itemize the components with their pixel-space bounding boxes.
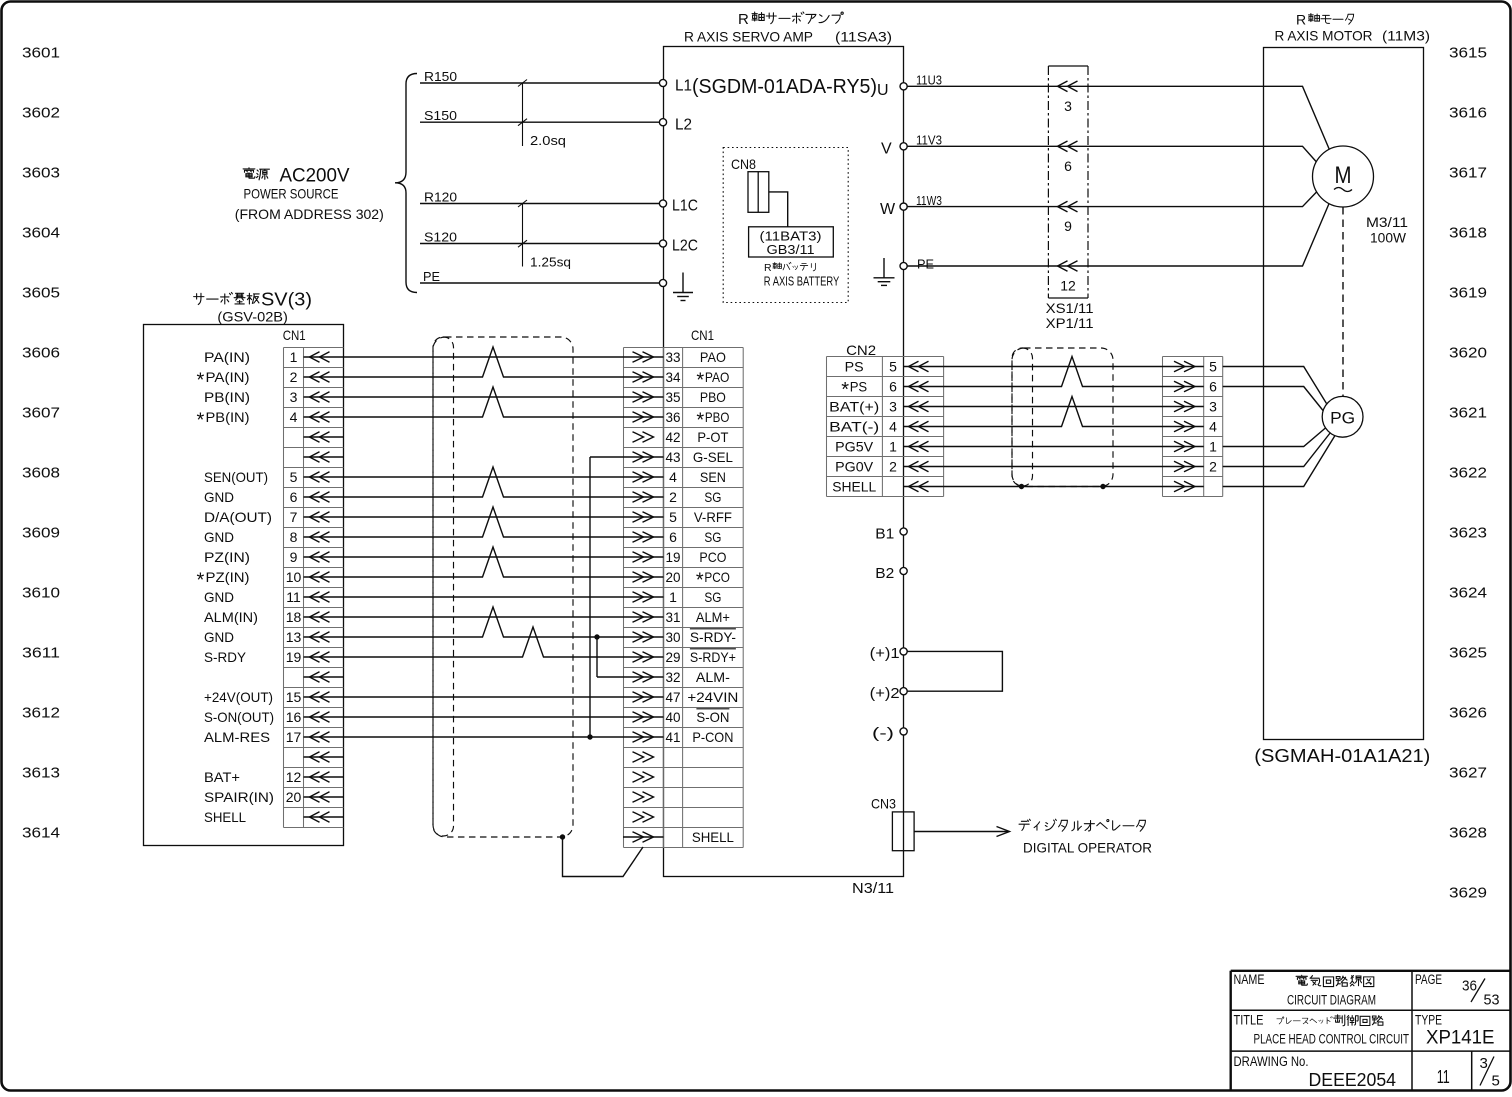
- svg-text:3: 3: [889, 399, 897, 415]
- wire row y657 left-to-amp: [343, 627, 623, 657]
- wire CN2 row 5: [944, 446, 1162, 448]
- svg-text:SEN: SEN: [700, 469, 726, 485]
- svg-text:SHELL: SHELL: [204, 809, 246, 825]
- left CN1 row PB(IN) pin 3: [204, 389, 343, 405]
- motor label M3/11 100W: [1366, 215, 1408, 246]
- svg-text:3605: 3605: [22, 284, 60, 301]
- wire row y737 left-to-amp: [343, 736, 623, 738]
- encoder table row pin 2: [1162, 459, 1217, 475]
- CN2 row PG5V pin 1: [835, 439, 943, 455]
- connector CN8: [731, 156, 769, 212]
- svg-text:3614: 3614: [22, 824, 60, 841]
- svg-text:6: 6: [889, 379, 897, 395]
- wire row y397 left-to-amp: [343, 396, 623, 398]
- svg-text:PG5V: PG5V: [835, 439, 874, 455]
- amp CN1 row pin - blank: [633, 792, 654, 803]
- terminal PE input: [659, 279, 666, 286]
- svg-text:(11M3): (11M3): [1382, 28, 1430, 44]
- left CN1 row blank pin -: [304, 752, 344, 763]
- svg-text:42: 42: [666, 429, 681, 445]
- left CN1 row blank pin -: [304, 432, 344, 443]
- encoder table row pin 6: [1162, 379, 1217, 395]
- brace grouping power wires: [395, 74, 417, 293]
- svg-text:CN2: CN2: [846, 342, 876, 358]
- shielded cable boundary (left pair cable): [433, 337, 573, 837]
- motor encoder connector pin table: [1163, 357, 1223, 497]
- cable shield junction node: [560, 834, 565, 839]
- amp CN1 row pin - blank: [633, 772, 654, 783]
- svg-text:DRAWING No.: DRAWING No.: [1234, 1054, 1309, 1069]
- svg-text:4: 4: [889, 419, 897, 435]
- title block TITLE cell: [1234, 1013, 1410, 1047]
- svg-text:PA(IN): PA(IN): [206, 369, 250, 385]
- svg-text:XP1/11: XP1/11: [1046, 316, 1094, 331]
- svg-text:3625: 3625: [1449, 644, 1487, 661]
- svg-text:S-RDY+: S-RDY+: [690, 649, 736, 665]
- amp CN1 row pin 36 *PBO: [623, 409, 729, 432]
- svg-text:100W: 100W: [1370, 231, 1406, 246]
- amp CN1 row pin 1 SG: [623, 589, 721, 605]
- motor subtitle R AXIS MOTOR (11M3): [1275, 28, 1431, 44]
- svg-text:R150: R150: [424, 69, 457, 84]
- svg-text:R AXIS BATTERY: R AXIS BATTERY: [764, 275, 840, 289]
- connector XS1/11 XP1/11: [1046, 66, 1094, 331]
- svg-text:3617: 3617: [1449, 164, 1487, 181]
- connector CN3: [871, 796, 914, 851]
- svg-text:POWER SOURCE: POWER SOURCE: [244, 186, 339, 202]
- svg-text:6: 6: [669, 529, 677, 545]
- svg-text:B1: B1: [875, 527, 894, 543]
- svg-text:1: 1: [290, 349, 298, 365]
- svg-text:9: 9: [290, 549, 298, 565]
- wire 11V3: [907, 133, 1263, 148]
- svg-text:4: 4: [290, 409, 298, 425]
- svg-text:S-RDY: S-RDY: [204, 649, 247, 665]
- svg-text:(-): (-): [872, 726, 894, 742]
- wire CN2 row 2: [944, 357, 1162, 387]
- amp CN1 row pin 5 V-RFF: [623, 509, 732, 525]
- svg-text:M3/11: M3/11: [1366, 215, 1408, 230]
- svg-text:ALM-: ALM-: [696, 669, 730, 685]
- left CN1 row BAT+ pin 12: [204, 769, 343, 785]
- svg-text:11U3: 11U3: [916, 73, 942, 88]
- svg-text:PB(IN): PB(IN): [206, 409, 250, 425]
- left CN1 row GND pin 6: [204, 489, 343, 505]
- svg-text:N3/11: N3/11: [852, 881, 894, 897]
- terminal PE output: [900, 256, 934, 271]
- svg-text:32: 32: [666, 669, 681, 685]
- servo amp subtitle R AXIS SERVO AMP (11SA3): [684, 29, 892, 45]
- left CN1 row GND pin 8: [204, 529, 343, 545]
- svg-text:GB3/11: GB3/11: [767, 243, 815, 257]
- encoder wires to PG: [1223, 367, 1335, 487]
- svg-text:V-RFF: V-RFF: [694, 509, 732, 525]
- svg-text:PAGE: PAGE: [1415, 972, 1442, 987]
- svg-text:10: 10: [286, 569, 302, 585]
- svg-text:5: 5: [1209, 359, 1217, 375]
- svg-text:P-CON: P-CON: [692, 729, 733, 745]
- shielded cable boundary (encoder cable): [1012, 348, 1113, 487]
- amp CN1 row pin 2 SG: [623, 489, 721, 505]
- wire PE to motor: [907, 265, 1263, 267]
- wire gauge 2.0sq for R150/S150: [518, 80, 566, 149]
- svg-text:8: 8: [290, 529, 298, 545]
- svg-text:19: 19: [666, 549, 681, 565]
- amp CN1 row pin 42 P-OT: [633, 429, 729, 445]
- left CN1 pin table grid: [284, 348, 344, 828]
- wire row y597 left-to-amp: [343, 596, 623, 598]
- left CN1 row blank pin -: [304, 452, 344, 463]
- svg-text:3609: 3609: [22, 524, 60, 541]
- encoder cable shield junction nodes: [1019, 484, 1024, 489]
- servo board SV(3) title サーボ基板SV(3): [194, 290, 312, 310]
- svg-text:AC200V: AC200V: [280, 166, 350, 187]
- wire row y537 left-to-amp: [343, 507, 623, 537]
- left CN1 row *PA(IN) pin 2: [197, 369, 344, 392]
- svg-text:CN8: CN8: [731, 156, 756, 172]
- right margin line numbers 3615-3629: [1449, 44, 1487, 901]
- svg-text:S-ON(OUT): S-ON(OUT): [204, 709, 274, 725]
- svg-text:3612: 3612: [22, 704, 60, 721]
- svg-text:17: 17: [286, 729, 302, 745]
- wire row y557 left-to-amp: [343, 556, 623, 558]
- svg-text:20: 20: [286, 789, 302, 805]
- svg-text:PAO: PAO: [705, 369, 730, 385]
- motor internal wires U V W PE: [1264, 86, 1331, 151]
- dashed shaft link from motor to encoder: [1342, 207, 1344, 396]
- svg-text:3629: 3629: [1449, 884, 1487, 901]
- svg-text:16: 16: [286, 709, 302, 725]
- R axis motor 11M3 outline box: [1264, 48, 1424, 740]
- CN2 pin table grid: [827, 357, 944, 497]
- svg-text:3627: 3627: [1449, 764, 1487, 781]
- left CN1 row SHELL pin -: [204, 809, 343, 825]
- svg-text:3620: 3620: [1449, 344, 1487, 361]
- svg-text:S120: S120: [424, 230, 457, 245]
- svg-text:PCO: PCO: [704, 569, 730, 585]
- svg-text:V: V: [881, 141, 892, 158]
- svg-text:PBO: PBO: [700, 389, 726, 405]
- svg-text:*: *: [197, 410, 205, 432]
- svg-text:47: 47: [666, 689, 681, 705]
- svg-text:(SGDM-01ADA-RY5): (SGDM-01ADA-RY5): [692, 76, 877, 98]
- terminal (+)1: [870, 646, 908, 662]
- svg-text:2: 2: [1209, 459, 1217, 475]
- terminal U: [877, 82, 907, 99]
- svg-text:R: R: [738, 11, 749, 28]
- svg-text:SPAIR(IN): SPAIR(IN): [204, 789, 274, 805]
- encoder table row pin 4: [1162, 419, 1217, 435]
- svg-text:B2: B2: [875, 566, 894, 582]
- svg-text:PS: PS: [850, 379, 868, 395]
- svg-text:3616: 3616: [1449, 104, 1487, 121]
- svg-text:11: 11: [1437, 1067, 1450, 1087]
- amp CN1 row pin 4 SEN: [623, 469, 726, 485]
- svg-text:43: 43: [666, 449, 681, 465]
- svg-text:1: 1: [1209, 439, 1217, 455]
- svg-text:L2C: L2C: [672, 238, 698, 255]
- svg-text:GND: GND: [204, 489, 234, 505]
- terminal L2C: [659, 238, 698, 255]
- svg-text:PG: PG: [1330, 409, 1355, 428]
- wire CN8 to battery: [769, 192, 788, 227]
- left CN1 row SPAIR(IN) pin 20: [204, 789, 343, 805]
- svg-text:18: 18: [286, 609, 302, 625]
- svg-text:3602: 3602: [22, 104, 60, 121]
- svg-text:R: R: [1296, 12, 1306, 28]
- svg-text:3621: 3621: [1449, 404, 1487, 421]
- svg-text:R120: R120: [424, 190, 457, 205]
- CN2 row *PS pin 6: [841, 379, 943, 402]
- svg-text:31: 31: [666, 609, 681, 625]
- svg-text:30: 30: [666, 629, 681, 645]
- svg-text:(+)2: (+)2: [870, 686, 900, 702]
- amp CN1 row pin 34 *PAO: [623, 369, 729, 392]
- svg-text:2: 2: [889, 459, 897, 475]
- svg-text:3608: 3608: [22, 464, 60, 481]
- svg-text:PZ(IN): PZ(IN): [206, 569, 250, 585]
- battery label R軸バッテリ: [764, 262, 815, 274]
- svg-text:P-OT: P-OT: [697, 429, 728, 445]
- svg-text:SG: SG: [704, 529, 721, 545]
- servo board outline box: [144, 325, 344, 846]
- left CN1 row PZ(IN) pin 9: [204, 549, 343, 565]
- svg-text:PB(IN): PB(IN): [204, 389, 250, 405]
- svg-text:W: W: [880, 201, 896, 218]
- svg-text:PCO: PCO: [699, 549, 726, 565]
- encoder table row pin 3: [1162, 399, 1217, 415]
- svg-text:3611: 3611: [22, 644, 60, 661]
- ground symbol at PE output: [874, 258, 895, 285]
- svg-text:(+)1: (+)1: [870, 646, 900, 662]
- wire R120: [420, 190, 663, 205]
- title block DRAWING No. cell: [1234, 1054, 1500, 1090]
- svg-text:SHELL: SHELL: [692, 829, 734, 845]
- servo amp title R軸サーボアンプ: [738, 11, 843, 28]
- svg-text:D/A(OUT): D/A(OUT): [204, 509, 272, 525]
- svg-text:3628: 3628: [1449, 824, 1487, 841]
- svg-text:9: 9: [1064, 218, 1072, 234]
- battery section dotted enclosure: [723, 148, 848, 303]
- wire 11U3: [907, 73, 1263, 88]
- terminal V: [881, 141, 907, 158]
- svg-text:+24V(OUT): +24V(OUT): [204, 689, 273, 705]
- wire ALM- branch from GND13: [597, 676, 623, 678]
- svg-text:ALM+: ALM+: [696, 609, 730, 625]
- svg-text:4: 4: [1209, 419, 1217, 435]
- motor title R軸モータ: [1296, 12, 1354, 28]
- wire row y517 left-to-amp: [343, 516, 623, 518]
- svg-text:3626: 3626: [1449, 704, 1487, 721]
- svg-text:1: 1: [889, 439, 897, 455]
- terminal (-): [872, 726, 907, 742]
- amp CN1 row pin 43 G-SEL: [623, 449, 733, 465]
- wire row y577 left-to-amp: [343, 547, 623, 577]
- left CN1 row ALM(IN) pin 18: [204, 609, 343, 625]
- svg-text:3: 3: [1064, 98, 1072, 114]
- wire CN2 row 4: [944, 397, 1162, 427]
- CN2 row BAT(-) pin 4: [829, 419, 943, 435]
- svg-text:(FROM ADDRESS 302): (FROM ADDRESS 302): [235, 206, 384, 222]
- svg-text:U: U: [877, 82, 889, 99]
- svg-text:PE: PE: [423, 269, 440, 284]
- svg-text:3: 3: [1480, 1055, 1488, 1072]
- svg-text:ALM-RES: ALM-RES: [204, 729, 270, 745]
- wire row y497 left-to-amp: [343, 467, 623, 497]
- CN2 row PS pin 5: [845, 359, 944, 375]
- svg-text:TYPE: TYPE: [1415, 1013, 1442, 1028]
- svg-text:PG0V: PG0V: [835, 459, 874, 475]
- svg-text:(11BAT3): (11BAT3): [760, 229, 822, 243]
- amp CN1 row pin 31 ALM+: [623, 609, 730, 625]
- amp CN1 row pin - blank: [633, 812, 654, 823]
- power source label 電源 AC200V: [235, 166, 384, 222]
- svg-text:S-ON: S-ON: [696, 709, 729, 725]
- wire row y477 left-to-amp: [343, 476, 623, 478]
- svg-text:SG: SG: [704, 589, 721, 605]
- svg-text:3613: 3613: [22, 764, 60, 781]
- svg-text:11: 11: [286, 589, 301, 605]
- svg-text:SG: SG: [704, 489, 721, 505]
- svg-text:L1C: L1C: [672, 198, 698, 215]
- svg-text:R AXIS MOTOR: R AXIS MOTOR: [1275, 28, 1373, 44]
- wire S150: [420, 108, 663, 123]
- svg-text:3624: 3624: [1449, 584, 1487, 601]
- left CN1 row S-ON(OUT) pin 16: [204, 709, 343, 725]
- svg-text:PZ(IN): PZ(IN): [204, 549, 250, 565]
- wire CN2 row 1: [944, 366, 1162, 368]
- svg-text:5: 5: [669, 509, 677, 525]
- svg-text:12: 12: [1060, 278, 1076, 294]
- servo amplifier 11SA3 outline box: [664, 47, 904, 877]
- svg-text:41: 41: [666, 729, 681, 745]
- svg-text:2: 2: [669, 489, 677, 505]
- amp CN1 row pin 35 PBO: [623, 389, 726, 405]
- terminal B2: [875, 566, 907, 582]
- svg-text:3615: 3615: [1449, 44, 1487, 61]
- svg-text:DEEE2054: DEEE2054: [1309, 1070, 1397, 1090]
- svg-text:3618: 3618: [1449, 224, 1487, 241]
- svg-text:35: 35: [666, 389, 681, 405]
- svg-text:3622: 3622: [1449, 464, 1487, 481]
- title block: [1231, 971, 1510, 1091]
- wire row y697 left-to-amp: [343, 696, 623, 698]
- wire gauge 1.25sq for R120/S120: [518, 200, 571, 270]
- wire row y377 left-to-amp: [343, 347, 623, 377]
- svg-text:(GSV-02B): (GSV-02B): [217, 309, 288, 325]
- wire 11W3: [907, 193, 1263, 208]
- svg-text:(11SA3): (11SA3): [835, 29, 892, 45]
- svg-text:CIRCUIT DIAGRAM: CIRCUIT DIAGRAM: [1287, 993, 1376, 1008]
- svg-text:XS1/11: XS1/11: [1046, 301, 1094, 316]
- svg-text:NAME: NAME: [1234, 972, 1265, 987]
- shield drain wire to amp CN1 SHELL: [563, 837, 644, 877]
- digital operator label ディジタルオペレータ: [1019, 819, 1030, 830]
- svg-text:15: 15: [286, 689, 302, 705]
- left CN1 row +24V(OUT) pin 15: [204, 689, 343, 705]
- left CN1 row S-RDY pin 19: [204, 649, 343, 665]
- wire CN2 row 6: [944, 466, 1162, 468]
- svg-text:2.0sq: 2.0sq: [530, 133, 566, 148]
- svg-text:11W3: 11W3: [916, 193, 942, 208]
- svg-text:PBO: PBO: [705, 409, 730, 425]
- svg-text:33: 33: [666, 349, 681, 365]
- svg-text:6: 6: [1209, 379, 1217, 395]
- amp CN1 row pin 20 *PCO: [623, 569, 730, 592]
- amp CN1 row pin 29 S-RDY+: [623, 649, 736, 665]
- svg-text:BAT(-): BAT(-): [829, 419, 879, 435]
- svg-text:6: 6: [290, 489, 298, 505]
- left CN1 row ALM-RES pin 17: [204, 729, 343, 745]
- amp CN1 pin table grid: [624, 348, 744, 848]
- title block TYPE cell XP141E: [1415, 1013, 1495, 1049]
- amp CN1 row pin 19 PCO: [623, 549, 726, 565]
- svg-text:3604: 3604: [22, 224, 60, 241]
- svg-text:M: M: [1335, 162, 1352, 189]
- svg-text:5: 5: [1492, 1073, 1500, 1090]
- wire PE input: [420, 269, 663, 284]
- svg-text:PLACE HEAD CONTROL CIRCUIT: PLACE HEAD CONTROL CIRCUIT: [1254, 1032, 1410, 1047]
- amp CN1 row pin - SHELL: [623, 829, 734, 845]
- svg-text:36: 36: [666, 409, 681, 425]
- svg-text:40: 40: [666, 709, 681, 725]
- motor M circle: [1313, 146, 1374, 207]
- wire S120: [420, 230, 663, 245]
- svg-text:XP141E: XP141E: [1426, 1028, 1495, 1049]
- svg-text:BAT+: BAT+: [204, 769, 240, 785]
- svg-text:CN1: CN1: [283, 327, 306, 343]
- svg-text:19: 19: [286, 649, 302, 665]
- svg-text:SV(3): SV(3): [261, 290, 312, 310]
- terminal L2: [659, 117, 692, 134]
- svg-text:GND: GND: [204, 529, 234, 545]
- wire row y617 left-to-amp: [343, 616, 623, 618]
- left CN1 row *PB(IN) pin 4: [197, 409, 344, 432]
- svg-text:2: 2: [290, 369, 298, 385]
- svg-text:1.25sq: 1.25sq: [530, 255, 571, 270]
- wire CN2 row 7: [944, 486, 1162, 488]
- svg-text:4: 4: [669, 469, 677, 485]
- svg-text:S150: S150: [424, 108, 457, 123]
- encoder table row pin 5: [1162, 359, 1217, 375]
- svg-text:CN1: CN1: [691, 327, 714, 343]
- CN2 row SHELL pin -: [832, 479, 943, 495]
- battery GB3/11 (11BAT3): [749, 227, 834, 257]
- left margin line numbers 3601-3614: [22, 44, 60, 841]
- svg-text:7: 7: [290, 509, 298, 525]
- svg-text:PAO: PAO: [700, 349, 726, 365]
- svg-text:34: 34: [666, 369, 681, 385]
- svg-text:3610: 3610: [22, 584, 60, 601]
- wire row y717 left-to-amp: [343, 716, 623, 718]
- left CN1 row blank pin -: [304, 672, 344, 683]
- arrow CN3 to digital operator: [914, 827, 1009, 837]
- wire loop between (+)1 and (+)2: [907, 651, 1002, 691]
- svg-text:TITLE: TITLE: [1234, 1013, 1264, 1028]
- svg-text:PS: PS: [845, 359, 864, 375]
- svg-text:11V3: 11V3: [916, 133, 942, 148]
- amp CN1 row pin 32 ALM-: [623, 669, 730, 685]
- encoder table row pin 1: [1162, 439, 1217, 455]
- wire G-SEL branch from P-CON: [590, 456, 623, 458]
- svg-text:5: 5: [290, 469, 298, 485]
- svg-text:13: 13: [286, 629, 302, 645]
- svg-text:PE: PE: [917, 256, 934, 271]
- amp CN1 row pin 47 +24VIN: [623, 689, 738, 705]
- svg-text:6: 6: [1064, 158, 1072, 174]
- svg-text:5: 5: [889, 359, 897, 375]
- svg-text:S-RDY-: S-RDY-: [690, 629, 736, 645]
